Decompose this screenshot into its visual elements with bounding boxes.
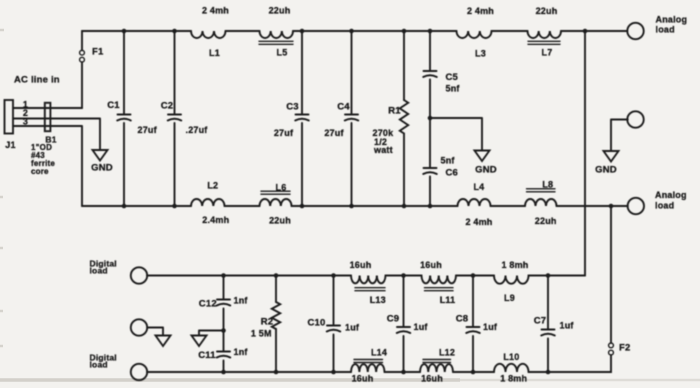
svg-text:2 4mh: 2 4mh: [202, 6, 229, 16]
svg-text:5nf: 5nf: [446, 84, 461, 94]
svg-text:L8: L8: [542, 180, 553, 190]
svg-text:Analog: Analog: [655, 190, 687, 200]
svg-text:2.4mh: 2.4mh: [202, 215, 229, 225]
svg-text:L3: L3: [475, 49, 486, 59]
svg-text:L4: L4: [473, 182, 484, 192]
svg-text:core: core: [31, 167, 49, 176]
svg-text:C3: C3: [286, 102, 299, 113]
svg-text:F2: F2: [619, 343, 631, 354]
svg-text:C4: C4: [337, 102, 350, 113]
svg-text:L12: L12: [439, 347, 455, 357]
svg-text:load: load: [90, 265, 108, 275]
svg-text:C7: C7: [534, 316, 547, 327]
svg-text:C12: C12: [199, 299, 217, 310]
svg-text:J1: J1: [5, 140, 15, 150]
svg-text:1 8mh: 1 8mh: [500, 373, 527, 383]
svg-text:22uh: 22uh: [536, 6, 558, 16]
svg-text:L7: L7: [542, 48, 553, 58]
svg-text:L9: L9: [504, 293, 515, 303]
svg-text:1nf: 1nf: [234, 347, 249, 357]
svg-text:16uh: 16uh: [350, 260, 372, 270]
svg-text:C2: C2: [161, 101, 174, 112]
svg-text:C5: C5: [446, 72, 459, 83]
svg-text:3: 3: [23, 116, 28, 126]
svg-text:1nf: 1nf: [234, 296, 249, 306]
svg-text:L10: L10: [503, 352, 519, 362]
svg-text:1uf: 1uf: [560, 321, 575, 331]
svg-text:1 5M: 1 5M: [251, 328, 272, 338]
svg-text:C11: C11: [198, 350, 216, 361]
svg-text:F1: F1: [92, 47, 104, 58]
svg-text:R1: R1: [388, 106, 401, 117]
svg-text:L2: L2: [207, 181, 218, 191]
svg-text:1uf: 1uf: [414, 322, 429, 332]
svg-text:5nf: 5nf: [441, 156, 456, 166]
svg-text:2 4mh: 2 4mh: [467, 6, 494, 16]
svg-text:22uh: 22uh: [269, 215, 291, 225]
svg-text:L14: L14: [371, 347, 387, 357]
svg-text:1uf: 1uf: [345, 323, 360, 333]
svg-text:AC line in: AC line in: [14, 75, 60, 86]
svg-text:C9: C9: [387, 314, 400, 325]
svg-text:22uh: 22uh: [535, 216, 557, 226]
svg-text:22uh: 22uh: [269, 6, 291, 16]
svg-text:2 4mh: 2 4mh: [465, 217, 492, 227]
svg-text:GND: GND: [595, 165, 617, 176]
svg-text:GND: GND: [91, 163, 113, 174]
svg-text:C8: C8: [456, 314, 469, 325]
svg-text:C1: C1: [107, 100, 120, 111]
svg-text:L11: L11: [440, 295, 456, 305]
svg-text:.27uf: .27uf: [186, 125, 209, 135]
svg-text:1uf: 1uf: [483, 322, 498, 332]
svg-text:GND: GND: [475, 165, 497, 176]
svg-text:L5: L5: [277, 48, 288, 58]
svg-text:1 8mh: 1 8mh: [501, 260, 528, 270]
svg-text:L1: L1: [209, 48, 220, 58]
svg-text:C10: C10: [307, 318, 325, 329]
svg-text:27uf: 27uf: [324, 128, 344, 138]
svg-text:load: load: [90, 359, 108, 369]
svg-text:16uh: 16uh: [352, 373, 374, 383]
svg-text:L13: L13: [370, 295, 386, 305]
svg-text:R2: R2: [261, 317, 274, 328]
svg-text:C6: C6: [446, 168, 459, 179]
svg-text:16uh: 16uh: [420, 260, 442, 270]
svg-text:Analog: Analog: [656, 15, 688, 25]
svg-text:16uh: 16uh: [421, 373, 443, 383]
svg-text:load: load: [656, 25, 675, 35]
svg-text:watt: watt: [373, 145, 393, 155]
svg-text:27uf: 27uf: [138, 125, 158, 135]
svg-text:load: load: [655, 200, 674, 210]
svg-text:L6: L6: [276, 182, 287, 192]
svg-text:27uf: 27uf: [274, 128, 294, 138]
